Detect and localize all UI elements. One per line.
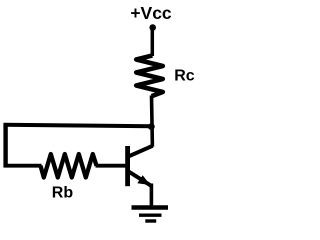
resistor Rc bbox=[136, 56, 163, 97]
wire Vcc dot to Rc top bbox=[151, 26, 155, 56]
wire feedback left vertical bbox=[3, 123, 7, 167]
node Vcc terminal dot bbox=[149, 24, 156, 31]
wire feedback top horizontal bbox=[4, 125, 153, 127]
transistor Q1 emitter lead bbox=[128, 171, 151, 186]
svg-text:Rc: Rc bbox=[174, 68, 195, 85]
wire Rb right to base bbox=[96, 164, 127, 168]
transistor Q1 collector lead bbox=[127, 146, 153, 158]
ground symbol bar 3 bbox=[145, 219, 156, 222]
svg-text:Rb: Rb bbox=[52, 185, 74, 202]
resistor Rb bbox=[41, 154, 97, 178]
ground symbol bar 1 bbox=[132, 205, 169, 209]
svg-text:+Vcc: +Vcc bbox=[130, 3, 172, 23]
transistor Q1 base bar bbox=[125, 146, 130, 186]
wire Rc bottom to collector junction bbox=[150, 96, 154, 147]
wire feedback bottom to Rb left bbox=[4, 164, 42, 168]
ground symbol bar 2 bbox=[139, 213, 162, 216]
transistor Q1 emitter arrowhead bbox=[137, 175, 150, 185]
node collector junction dot bbox=[148, 123, 155, 130]
wire emitter to ground bbox=[150, 184, 154, 208]
